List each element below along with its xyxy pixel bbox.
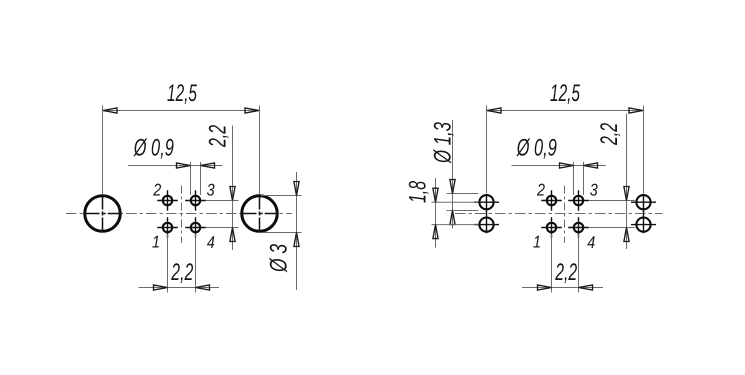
- contact hole 2 (top-left): [157, 190, 178, 210]
- dimension Ø 1,3 (right view, far left): [430, 120, 479, 229]
- main horizontal centerline (left view): [66, 213, 292, 215]
- arrowhead of dimension Ø 1,3 (right view, far left): [450, 211, 455, 225]
- pin number 2 (right view): [536, 180, 545, 199]
- arrowhead of dimension Ø 3 (left view, right side): [294, 233, 299, 247]
- svg-text:Ø 3: Ø 3: [266, 244, 293, 273]
- horizontal line y=195.5 of dimension Ø 3 (left view, right side): [261, 195, 302, 197]
- arrowhead of dimension Ø 0,9 (right view): [584, 163, 598, 168]
- center cross of contact hole 4 (bottom-right): [185, 217, 206, 237]
- svg-text:4: 4: [207, 233, 215, 252]
- center cross of fixing hole pair right (Ø1,3): [631, 194, 656, 234]
- pin number 3 (left view): [207, 181, 215, 200]
- circle outline of fixing hole pair right (Ø1,3): [636, 218, 650, 232]
- vertical line x=551.5 of dimension 2,2 bottom (right view): [551, 234, 553, 293]
- fixing hole pair right (Ø1,3): [631, 194, 656, 234]
- dimension 2,2 bottom (right view): [522, 234, 603, 293]
- circle outline of contact hole 1 (bottom-left): [163, 223, 172, 232]
- circle outline of fixing hole pair right (Ø1,3): [636, 195, 650, 209]
- center cross of contact hole 1 (right view): [541, 217, 562, 237]
- arrowhead of dimension 2,2 bottom (left view): [196, 285, 210, 290]
- circle outline of mounting hole left (Ø3): [85, 196, 121, 232]
- horizontal line y=210.5 of dimension Ø 1,3 (right view, far left): [447, 210, 479, 212]
- contact hole 2 (right view): [541, 190, 562, 210]
- center cross of mounting hole left (Ø3): [85, 195, 121, 232]
- horizontal line y=165.5 of dimension Ø 0,9 (right view): [512, 165, 606, 167]
- arrowhead of dimension Ø 0,9 (left view): [177, 163, 191, 168]
- arrowhead of dimension 2,2 vertical (left view, right of holes): [230, 187, 235, 201]
- arrowhead of dimension Ø 0,9 (left view): [201, 163, 215, 168]
- svg-text:4: 4: [587, 233, 595, 252]
- mounting hole right (Ø3): [242, 195, 278, 232]
- horizontal line y=110.5 of dimension 12,5 (left view, top): [103, 110, 260, 112]
- horizontal line y=110.5 of dimension 12,5 (right view, top): [487, 110, 644, 112]
- contact hole 3 (right view): [568, 190, 589, 210]
- vertical line x=190.5 of dimension Ø 0,9 (left view): [190, 162, 192, 195]
- dimension 12,5 (left view, top): [103, 80, 260, 194]
- arrowhead of dimension 12,5 (left view, top): [103, 108, 117, 113]
- main horizontal centerline (right view): [455, 213, 663, 215]
- svg-text:1: 1: [152, 233, 160, 252]
- vertical line x=232.5 of dimension 2,2 vertical (left view, right of holes): [232, 126, 234, 251]
- arrowhead of dimension Ø 3 (left view, right side): [294, 182, 299, 196]
- horizontal line y=224.6 of dimension 1,8 (right view, far left): [432, 224, 479, 226]
- svg-text:Ø 0,9: Ø 0,9: [133, 134, 174, 161]
- center cross of contact hole 3 (top-right): [185, 190, 206, 210]
- circle outline of mounting hole right (Ø3): [242, 196, 278, 232]
- dimension 12,5 (right view, top): [487, 80, 644, 193]
- circle outline of contact hole 2 (top-left): [163, 196, 172, 205]
- vertical line x=435.5 of dimension 1,8 (right view, far left): [435, 178, 437, 248]
- circle outline of fixing hole pair left (Ø1,3): [479, 218, 493, 232]
- arrowhead of dimension 1,8 (right view, far left): [433, 225, 438, 239]
- vertical line x=578.5 of dimension 2,2 bottom (right view): [578, 234, 580, 293]
- contact hole 1 (right view): [541, 217, 562, 237]
- vertical line x=296.5 of dimension Ø 3 (left view, right side): [296, 172, 298, 290]
- mounting hole left (Ø3): [85, 195, 121, 232]
- circle outline of contact hole 4 (bottom-right): [191, 223, 200, 232]
- vertical line x=583.5 of dimension Ø 0,9 (right view): [583, 162, 585, 195]
- dimension 2,2 vertical (right view): [589, 114, 635, 250]
- pin number 2 (left view): [152, 180, 161, 199]
- contact hole 4 (bottom-right): [185, 217, 206, 237]
- svg-text:Ø 1,3: Ø 1,3: [430, 122, 457, 164]
- svg-text:2,2: 2,2: [596, 123, 623, 146]
- vertical line x=452.5 of dimension Ø 1,3 (right view, far left): [452, 120, 454, 229]
- vertical line x=195.5 of dimension 2,2 bottom (left view): [195, 234, 197, 293]
- arrowhead of dimension 2,2 bottom (right view): [579, 285, 593, 290]
- circle outline of contact hole 3 (right view): [574, 196, 583, 205]
- svg-text:1: 1: [533, 233, 541, 252]
- horizontal line y=200.5 of dimension 2,2 vertical (left view, right of holes): [206, 200, 239, 202]
- circle outline of contact hole 1 (right view): [547, 223, 556, 232]
- arrowhead of dimension 1,8 (right view, far left): [433, 188, 438, 202]
- svg-text:3: 3: [207, 181, 215, 200]
- dimension Ø 3 (left view, right side): [261, 172, 302, 290]
- center cross of contact hole 4 (right view): [568, 217, 589, 237]
- vertical line x=167.5 of dimension 2,2 bottom (left view): [167, 234, 169, 293]
- center cross of contact hole 2 (right view): [541, 190, 562, 210]
- fixing hole pair left (Ø1,3): [474, 194, 499, 234]
- svg-text:2,2: 2,2: [205, 125, 232, 148]
- arrowhead of dimension 2,2 vertical (right view): [624, 187, 629, 201]
- horizontal line y=232.5 of dimension Ø 3 (left view, right side): [261, 232, 302, 234]
- contact hole 3 (top-right): [185, 190, 206, 210]
- pin number 1 (left view): [152, 233, 160, 252]
- horizontal line y=200.5 of dimension 2,2 vertical (right view): [589, 200, 635, 202]
- svg-text:2: 2: [536, 180, 545, 199]
- dimension 2,2 vertical (left view, right of holes): [205, 125, 239, 250]
- vertical line x=626.5 of dimension 2,2 vertical (right view): [626, 114, 628, 250]
- svg-text:2,2: 2,2: [555, 259, 578, 286]
- horizontal line y=287.5 of dimension 2,2 bottom (left view): [139, 287, 220, 289]
- center cross of mounting hole right (Ø3): [242, 195, 278, 232]
- svg-text:2: 2: [152, 180, 161, 199]
- svg-text:2,2: 2,2: [171, 259, 194, 286]
- svg-text:3: 3: [590, 181, 598, 200]
- center cross of contact hole 1 (bottom-left): [157, 217, 178, 237]
- horizontal line y=287.5 of dimension 2,2 bottom (right view): [522, 287, 603, 289]
- vertical centerline between pads (right view): [564, 186, 566, 244]
- vertical centerline between pads (left view): [181, 186, 183, 244]
- svg-text:Ø 0,9: Ø 0,9: [516, 134, 557, 161]
- arrowhead of dimension 12,5 (right view, top): [629, 108, 643, 113]
- circle outline of contact hole 3 (top-right): [191, 196, 200, 205]
- vertical line x=200.5 of dimension Ø 0,9 (left view): [200, 162, 202, 195]
- vertical line x=573.5 of dimension Ø 0,9 (right view): [573, 162, 575, 195]
- arrowhead of dimension 2,2 bottom (right view): [538, 285, 552, 290]
- circle outline of contact hole 4 (right view): [574, 223, 583, 232]
- svg-text:12,5: 12,5: [167, 80, 197, 107]
- vertical line x=643.5 of dimension 12,5 (right view, top): [643, 106, 645, 194]
- svg-text:12,5: 12,5: [550, 80, 580, 107]
- arrowhead of dimension 2,2 vertical (right view): [624, 228, 629, 242]
- horizontal line y=202.2 of dimension 1,8 (right view, far left): [432, 201, 479, 203]
- arrowhead of dimension Ø 1,3 (right view, far left): [450, 180, 455, 194]
- arrowhead of dimension 2,2 vertical (left view, right of holes): [230, 228, 235, 242]
- dimension 2,2 bottom (left view): [139, 234, 220, 293]
- pin number 4 (right view): [587, 233, 595, 252]
- center cross of fixing hole pair left (Ø1,3): [474, 194, 499, 234]
- vertical line x=102.5 of dimension 12,5 (left view, top): [102, 106, 104, 195]
- center cross of contact hole 2 (top-left): [157, 190, 178, 210]
- contact hole 1 (bottom-left): [157, 217, 178, 237]
- horizontal line y=227.5 of dimension 2,2 vertical (right view): [589, 227, 635, 229]
- arrowhead of dimension 2,2 bottom (left view): [154, 285, 168, 290]
- arrowhead of dimension 12,5 (left view, top): [245, 108, 259, 113]
- arrowhead of dimension Ø 0,9 (right view): [560, 163, 574, 168]
- circle outline of contact hole 2 (right view): [547, 196, 556, 205]
- vertical line x=259.5 of dimension 12,5 (left view, top): [259, 106, 261, 195]
- horizontal line y=193.5 of dimension Ø 1,3 (right view, far left): [447, 193, 479, 195]
- pin number 3 (right view): [590, 181, 598, 200]
- pin number 4 (left view): [207, 233, 215, 252]
- arrowhead of dimension 12,5 (right view, top): [487, 108, 501, 113]
- vertical line x=486.5 of dimension 12,5 (right view, top): [486, 106, 488, 194]
- dimension Ø 0,9 (right view): [512, 134, 606, 195]
- horizontal line y=227.5 of dimension 2,2 vertical (left view, right of holes): [206, 227, 239, 229]
- center cross of contact hole 3 (right view): [568, 190, 589, 210]
- pin number 1 (right view): [533, 233, 541, 252]
- contact hole 4 (right view): [568, 217, 589, 237]
- horizontal line y=165.5 of dimension Ø 0,9 (left view): [128, 165, 222, 167]
- svg-text:1,8: 1,8: [405, 181, 432, 203]
- dimension 1,8 (right view, far left): [405, 178, 479, 248]
- dimension Ø 0,9 (left view): [128, 134, 222, 195]
- circle outline of fixing hole pair left (Ø1,3): [479, 195, 493, 209]
